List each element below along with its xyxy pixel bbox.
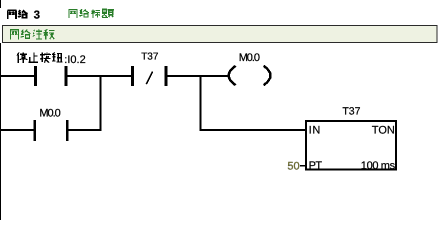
wire rung1 rail to contact I0.2 bbox=[0, 75, 34, 77]
wire rung2 rail to contact M0.0 bbox=[0, 129, 33, 131]
svg-text:50: 50 bbox=[287, 160, 299, 172]
svg-text:T37: T37 bbox=[342, 106, 360, 118]
coil M0.0 parentheses bbox=[229, 66, 236, 85]
svg-text:TON: TON bbox=[372, 125, 395, 137]
wire riser from rung1 down to timer input bbox=[200, 75, 202, 131]
svg-text:PT: PT bbox=[309, 160, 323, 172]
svg-text:M0.0: M0.0 bbox=[39, 108, 60, 120]
header 网络标题 (green) bbox=[69, 9, 114, 18]
wire riser from rung2 branch up to rung1 bbox=[100, 75, 102, 131]
comment text 网络注释 (green) bbox=[10, 29, 54, 39]
wire contact M0.0 to riser bbox=[69, 129, 102, 131]
contact T37 (normally closed) bars and slash bbox=[131, 66, 134, 86]
network comment box bbox=[3, 26, 438, 43]
timer box T37 TON bbox=[306, 121, 396, 170]
svg-text:M0.0: M0.0 bbox=[239, 52, 260, 64]
svg-text:100 ms: 100 ms bbox=[361, 160, 396, 172]
left power rail bbox=[0, 43, 1, 220]
svg-text::I0.2: :I0.2 bbox=[64, 54, 85, 66]
network separator stub top-left bbox=[0, 0, 1, 8]
header label 网络 3 (bold) bbox=[7, 10, 40, 22]
contact M0.0 bars bbox=[33, 120, 36, 141]
svg-text:T37: T37 bbox=[141, 52, 159, 63]
wire PT stub bbox=[300, 165, 306, 167]
contact I0.2 (normally open) bars bbox=[34, 66, 37, 86]
contact I0.2 label 停止按钮:I0.2 bbox=[17, 52, 86, 66]
svg-text:3: 3 bbox=[34, 10, 40, 22]
wire junction to timer IN bbox=[200, 129, 307, 131]
wire contact T37 to coil M0.0 bbox=[167, 75, 229, 77]
wire contact I0.2 to contact T37 bbox=[67, 75, 131, 77]
svg-text:IN: IN bbox=[309, 125, 321, 137]
